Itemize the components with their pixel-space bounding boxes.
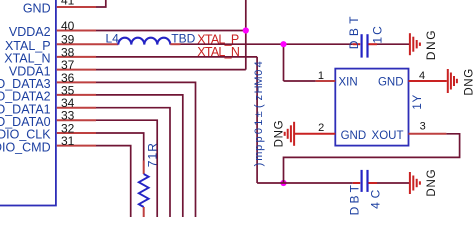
svg-text:XIN: XIN <box>339 77 358 89</box>
wire pin31 L-corner down <box>96 146 131 218</box>
junction dot node XTAL_N <box>280 180 286 186</box>
inductor L4 right lead <box>170 43 180 45</box>
svg-text:XOUT: XOUT <box>372 130 404 142</box>
svg-text:41: 41 <box>61 0 75 8</box>
svg-text:4C: 4C <box>369 186 383 209</box>
svg-text:DBT: DBT <box>347 12 361 49</box>
svg-text:DNG: DNG <box>273 120 285 148</box>
wire pin32 L-corner down to R17 <box>96 133 144 161</box>
svg-text:GND: GND <box>341 130 367 142</box>
wire pin41 to corner <box>96 0 106 7</box>
resistor R17 zigzag <box>139 174 149 207</box>
wire XTAL_P down to XIN <box>283 44 285 81</box>
capacitor C4 left lead <box>353 182 360 184</box>
wire XOUT return path right <box>284 134 460 183</box>
resistor R17 bottom lead <box>143 207 145 218</box>
svg-text:31: 31 <box>61 134 75 148</box>
wire pin35 L-corner down <box>96 95 183 218</box>
wire XTAL_N net vertical behind 40MHz text <box>256 57 258 183</box>
capacitor C1 left lead <box>353 43 360 45</box>
svg-text:4: 4 <box>419 70 425 82</box>
svg-text:3: 3 <box>420 120 426 132</box>
svg-text:1C: 1C <box>370 24 384 43</box>
pin 32 stub <box>57 132 96 134</box>
capacitor C4 plates <box>361 170 363 192</box>
wire pin36 L-corner down <box>96 82 196 218</box>
svg-text:SDIO_CMD: SDIO_CMD <box>0 140 51 154</box>
pin 41 stub <box>57 6 96 8</box>
svg-text:1: 1 <box>318 70 324 82</box>
ground symbol at pin 4 <box>448 69 457 93</box>
svg-text:1Y: 1Y <box>412 94 424 110</box>
svg-text:)mpp01±(zHM04: )mpp01±(zHM04 <box>253 61 265 166</box>
svg-text:40: 40 <box>61 19 75 33</box>
crystal Y1 box <box>335 69 408 146</box>
wire pin33 L-corner down <box>96 120 157 218</box>
wire pin40 to vertical <box>96 30 246 32</box>
ground symbol at C4 <box>410 172 420 194</box>
crystal pin 1 lead <box>316 80 336 82</box>
pin 31 stub <box>57 145 96 147</box>
pin 39 stub <box>57 43 119 45</box>
svg-text:DNG: DNG <box>426 169 438 197</box>
capacitor C1 plates <box>361 34 363 57</box>
pin 36 stub <box>57 81 96 83</box>
svg-text:GND: GND <box>23 2 51 16</box>
svg-text:DNG: DNG <box>463 68 474 95</box>
crystal pin 4 lead <box>409 80 447 82</box>
svg-text:DBT: DBT <box>348 182 362 216</box>
IC U1 box (right edge and bottom edge visible) <box>0 0 56 206</box>
capacitor C1 right lead <box>368 43 377 45</box>
crystal pin 3 lead <box>409 133 447 135</box>
ground symbol at C1 <box>410 33 420 55</box>
pin 34 stub <box>57 107 96 109</box>
wire pin37 to vertical <box>96 69 246 71</box>
svg-text:L4: L4 <box>106 32 120 46</box>
pin 38 stub <box>57 56 96 58</box>
svg-text:TBD: TBD <box>171 31 195 45</box>
wire XTAL_N net horizontal <box>96 56 257 58</box>
wire C1 to GND <box>377 43 409 45</box>
capacitor C4 right lead <box>368 182 377 184</box>
pin 40 stub <box>57 30 96 32</box>
inductor L4 coil <box>118 38 170 45</box>
wire pin34 L-corner down <box>96 108 170 218</box>
wire C4 to GND <box>377 182 409 184</box>
svg-text:DNG: DNG <box>424 29 438 60</box>
svg-text:XTAL_N: XTAL_N <box>197 45 240 59</box>
svg-text:2: 2 <box>318 122 324 134</box>
svg-text:71R: 71R <box>145 142 159 167</box>
wire XTAL_P net to C1 <box>181 43 353 45</box>
pin 37 stub <box>57 69 96 71</box>
crystal pin 2 lead <box>295 133 336 135</box>
resistor R17 top lead <box>143 161 145 175</box>
junction dot node XTAL_P <box>280 41 286 47</box>
svg-text:VDDA2: VDDA2 <box>9 25 51 39</box>
svg-text:GND: GND <box>378 77 404 89</box>
wire XTAL_N bottom horizontal <box>257 182 353 184</box>
ground symbol at pin 2 (pointing left) <box>285 122 294 146</box>
pin 35 stub <box>57 94 96 96</box>
pin 33 stub <box>57 119 96 121</box>
wire VDDA vertical riser <box>245 0 247 70</box>
wire to XIN pin 1 <box>284 80 316 82</box>
junction dot node VDDA <box>243 27 249 33</box>
